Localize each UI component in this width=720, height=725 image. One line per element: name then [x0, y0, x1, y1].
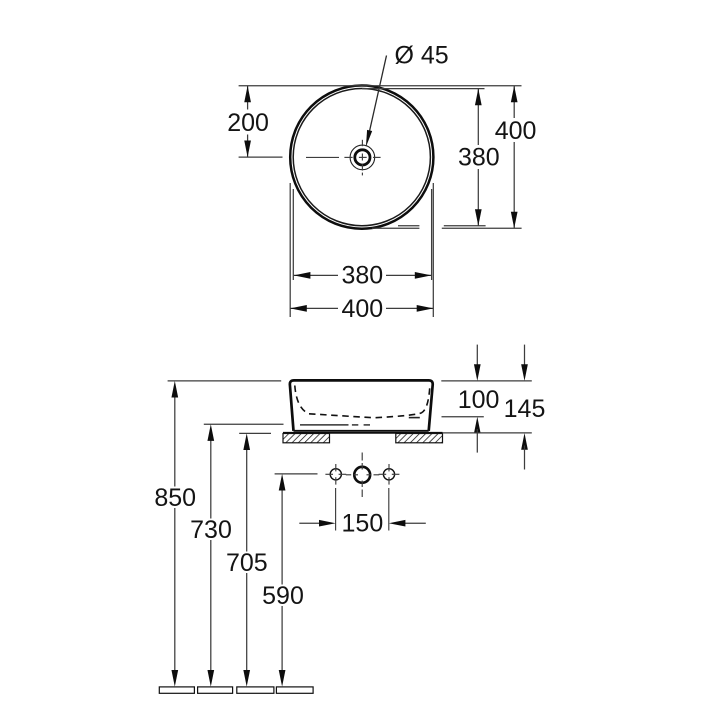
mounting pad right hatched [396, 434, 443, 443]
leader line to faucet hole [368, 56, 386, 138]
dim 145 extension line [443, 432, 532, 434]
dim 150 line right [402, 522, 426, 524]
dim 400 vertical arrow down [511, 212, 518, 229]
basin inner bowl dashed [295, 386, 430, 418]
svg-text:590: 590 [262, 582, 304, 610]
extension line left outer (below circle) [289, 183, 291, 317]
dim 100 top stem [476, 345, 478, 368]
dim 380 horizontal arrow left [294, 272, 311, 279]
dim 590 line [281, 487, 283, 673]
dim 145 bottom stem [524, 446, 526, 470]
shelf surface line [283, 432, 443, 434]
overflow mark solid [409, 417, 420, 419]
mounting pad left hatched [283, 434, 330, 443]
svg-text:380: 380 [458, 144, 500, 172]
dim 100 top arrow down [474, 364, 481, 381]
extension line top tangent [239, 85, 522, 87]
dim 705 arrow up [243, 433, 250, 450]
extension line left inner (below circle) [292, 189, 294, 280]
dim 705 line [246, 447, 248, 674]
mounting hole right crosshair [379, 464, 400, 485]
svg-text:Ø 45: Ø 45 [394, 42, 448, 70]
basin profile outline [290, 380, 433, 431]
extension line right outer (below circle) [432, 183, 434, 317]
dim 380 vertical line [477, 89, 479, 226]
floor slab 1 [159, 687, 194, 693]
extension line basin top right [441, 380, 532, 382]
extension line bottom outer tangent [372, 227, 522, 229]
dim 200 arrow down [244, 141, 251, 158]
dim 400 horizontal arrow left [290, 305, 307, 312]
svg-text:100: 100 [458, 386, 500, 414]
dim 705 extension line [239, 432, 271, 434]
basin bottom edge [294, 430, 429, 432]
faucet hole outer circle [350, 145, 375, 170]
dim 145 top stem [524, 345, 526, 368]
dim 100 bottom stem [476, 429, 478, 453]
floor slab 4 [276, 687, 313, 693]
basin inner rim circle [293, 89, 430, 226]
dim 100 extension line [442, 416, 484, 418]
dim 100 bottom arrow up [474, 417, 481, 434]
svg-text:200: 200 [227, 109, 269, 137]
dim 380 horizontal arrow right [415, 272, 432, 279]
dim 145 bottom arrow up [521, 433, 528, 450]
faucet hole bold circle [355, 150, 370, 165]
dim 730 arrow up [207, 424, 214, 441]
drain line dashes [352, 424, 370, 426]
dim 590 arrow down [279, 670, 286, 687]
dim 850 arrow up [171, 381, 178, 398]
dim 400 horizontal arrow right [417, 305, 434, 312]
mounting hole left circle [330, 469, 341, 480]
dim 400 vertical line [513, 86, 515, 228]
floor slab 3 [237, 687, 274, 693]
dim 200 arrow up [244, 86, 251, 103]
dim 850 arrow down [171, 670, 178, 687]
dim 730 extension line [204, 423, 284, 425]
dim 380 vertical arrow down [475, 209, 482, 226]
faucet hole centerline vertical [361, 140, 363, 176]
mounting hole left crosshair [325, 464, 346, 485]
dim 380 vertical arrow up [475, 89, 482, 106]
svg-text:380: 380 [341, 262, 383, 290]
dim 590 arrow up [279, 474, 286, 491]
svg-text:145: 145 [504, 395, 546, 423]
svg-text:730: 730 [190, 516, 232, 544]
dim 150 line left [299, 522, 322, 524]
drain line solid [300, 424, 349, 426]
extension line top inner tangent [362, 88, 485, 90]
svg-text:705: 705 [226, 549, 268, 577]
floor slab 2 [198, 687, 233, 693]
svg-text:850: 850 [154, 484, 196, 512]
dim 400 horizontal line [290, 307, 433, 309]
dim 400 vertical arrow up [511, 86, 518, 103]
tap hole centerline horizontal [346, 474, 380, 476]
dim 590 extension line [275, 473, 318, 475]
extension line mid left (center) [239, 156, 283, 158]
dim 150 extension lines [336, 488, 389, 531]
dim 850 line [174, 394, 176, 673]
dim 730 arrow down [207, 670, 214, 687]
tap hole bold circle side view [354, 467, 370, 483]
extension line basin top left [168, 380, 282, 382]
svg-text:400: 400 [495, 117, 537, 145]
dim 145 top arrow down [521, 364, 528, 381]
extension line bottom inner tangent [398, 225, 486, 227]
mounting hole right circle [383, 469, 394, 480]
basin outer rim circle [290, 86, 433, 229]
extension line right inner (below circle) [431, 189, 433, 280]
dim 705 arrow down [243, 670, 250, 687]
svg-text:150: 150 [342, 510, 384, 538]
dim 150 arrow right-pointing [319, 520, 336, 527]
svg-text:400: 400 [341, 295, 383, 323]
dim 150 arrow left-pointing [389, 520, 406, 527]
tap hole centerline vertical [361, 453, 363, 498]
leader arrowhead [366, 130, 372, 147]
dim 200 line [247, 86, 249, 157]
dim 730 line [210, 438, 212, 674]
faucet hole centerline horizontal [306, 156, 381, 158]
dim 380 horizontal line [294, 274, 432, 276]
